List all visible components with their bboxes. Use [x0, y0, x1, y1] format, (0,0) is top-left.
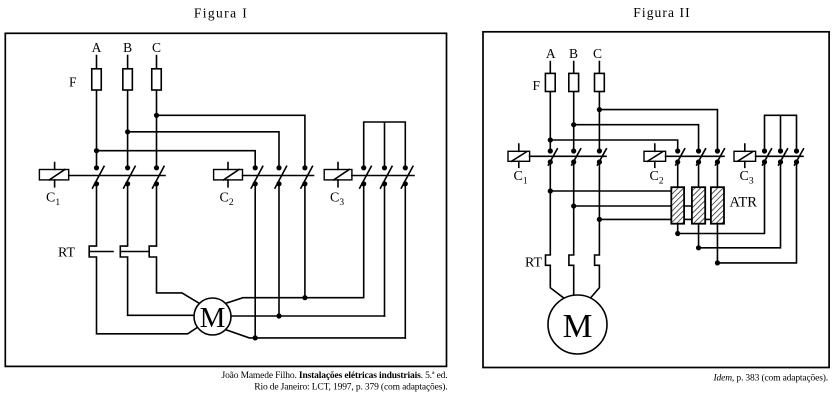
- svg-text:C1: C1: [514, 169, 528, 187]
- svg-text:Figura II: Figura II: [633, 5, 691, 20]
- svg-text:B: B: [569, 46, 578, 61]
- svg-text:C: C: [593, 46, 602, 61]
- svg-text:A: A: [546, 46, 556, 61]
- svg-text:F: F: [532, 78, 540, 93]
- svg-text:C2: C2: [220, 191, 234, 209]
- svg-text:Figura I: Figura I: [194, 6, 248, 21]
- svg-text:C: C: [152, 40, 161, 55]
- svg-text:C3: C3: [740, 169, 754, 187]
- svg-text:A: A: [92, 40, 102, 55]
- svg-text:Rio de Janeiro: LCT, 1997, p.: Rio de Janeiro: LCT, 1997, p. 379 (com a…: [254, 382, 447, 393]
- svg-text:RT: RT: [525, 255, 542, 270]
- svg-text:ATR: ATR: [730, 195, 758, 211]
- svg-text:F: F: [69, 75, 77, 90]
- svg-text:B: B: [123, 40, 132, 55]
- svg-text:C3: C3: [330, 191, 344, 209]
- svg-text:M: M: [200, 302, 226, 334]
- svg-text:João Mamede Filho. Instalações: João Mamede Filho. Instalações elétricas…: [222, 371, 448, 381]
- svg-text:RT: RT: [58, 245, 75, 260]
- svg-text:Idem, p. 383 (com adaptações).: Idem, p. 383 (com adaptações).: [713, 372, 828, 383]
- svg-text:M: M: [563, 308, 593, 345]
- svg-text:C1: C1: [46, 191, 60, 209]
- svg-text:C2: C2: [650, 169, 664, 187]
